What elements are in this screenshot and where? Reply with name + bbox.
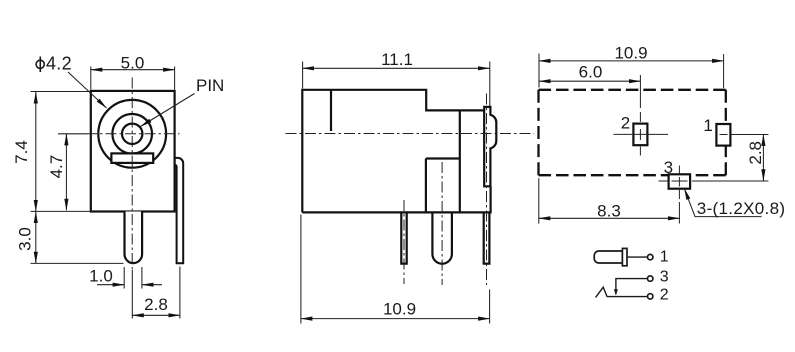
svg-text:2: 2 [621,114,630,133]
svg-text:4.2: 4.2 [46,54,72,74]
svg-text:3-(1.2X0.8): 3-(1.2X0.8) [697,199,786,218]
svg-text:2.8: 2.8 [746,141,765,165]
svg-text:10.9: 10.9 [383,300,416,319]
svg-text:1: 1 [703,116,712,135]
svg-text:2.8: 2.8 [144,295,168,314]
svg-text:3: 3 [664,158,673,177]
svg-text:10.9: 10.9 [614,43,647,62]
svg-text:8.3: 8.3 [597,202,621,221]
svg-text:5.0: 5.0 [121,54,145,73]
svg-text:3: 3 [660,269,669,286]
svg-text:1.0: 1.0 [89,267,113,286]
svg-text:1: 1 [660,249,669,266]
svg-text:11.1: 11.1 [381,50,413,69]
svg-text:7.4: 7.4 [12,140,31,164]
svg-text:PIN: PIN [196,76,224,95]
svg-text:6.0: 6.0 [579,63,603,82]
svg-text:2: 2 [660,287,669,304]
svg-text:3.0: 3.0 [16,227,35,251]
svg-text:4.7: 4.7 [47,155,66,179]
